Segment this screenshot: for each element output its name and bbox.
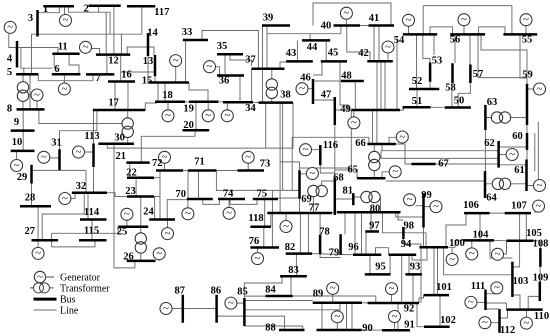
- svg-text:~: ~: [389, 282, 395, 294]
- svg-text:~: ~: [62, 192, 68, 204]
- svg-text:31: 31: [51, 138, 62, 149]
- svg-text:Generator: Generator: [60, 273, 101, 284]
- svg-text:17: 17: [108, 97, 119, 108]
- svg-text:~: ~: [165, 110, 171, 122]
- svg-text:14: 14: [147, 27, 158, 38]
- svg-text:~: ~: [37, 271, 43, 283]
- svg-text:~: ~: [165, 227, 171, 239]
- svg-text:~: ~: [224, 110, 230, 122]
- svg-text:79: 79: [329, 248, 340, 259]
- svg-text:99: 99: [421, 190, 432, 201]
- svg-text:~: ~: [255, 252, 261, 264]
- svg-text:65: 65: [348, 165, 359, 176]
- svg-text:44: 44: [307, 42, 318, 53]
- svg-text:~: ~: [407, 194, 413, 206]
- svg-text:20: 20: [183, 120, 194, 131]
- svg-text:40: 40: [321, 20, 332, 31]
- svg-text:71: 71: [194, 157, 205, 168]
- svg-text:~: ~: [173, 54, 179, 66]
- svg-text:82: 82: [285, 242, 296, 253]
- svg-text:~: ~: [76, 146, 82, 158]
- svg-text:55: 55: [522, 35, 533, 46]
- svg-text:3: 3: [28, 13, 33, 24]
- svg-text:61: 61: [514, 165, 525, 176]
- svg-text:80: 80: [370, 203, 381, 214]
- svg-text:~: ~: [495, 248, 501, 260]
- svg-text:85: 85: [237, 287, 248, 298]
- svg-text:68: 68: [333, 173, 344, 184]
- svg-text:87: 87: [174, 285, 185, 296]
- svg-text:~: ~: [207, 61, 213, 73]
- svg-text:15: 15: [142, 76, 153, 87]
- svg-text:73: 73: [260, 159, 271, 170]
- svg-text:56: 56: [450, 35, 461, 46]
- svg-text:66: 66: [355, 138, 366, 149]
- svg-text:109: 109: [533, 272, 549, 283]
- svg-text:116: 116: [323, 140, 338, 151]
- svg-text:53: 53: [432, 56, 443, 67]
- svg-text:52: 52: [412, 76, 423, 87]
- svg-text:78: 78: [319, 227, 330, 238]
- svg-text:74: 74: [223, 189, 234, 200]
- svg-text:39: 39: [263, 13, 274, 24]
- svg-text:113: 113: [84, 131, 99, 142]
- svg-text:~: ~: [205, 110, 211, 122]
- svg-text:~: ~: [226, 207, 232, 219]
- svg-text:97: 97: [369, 220, 380, 231]
- svg-text:47: 47: [321, 90, 332, 101]
- svg-text:21: 21: [116, 151, 127, 162]
- svg-text:27: 27: [25, 226, 36, 237]
- svg-text:~: ~: [468, 296, 474, 308]
- svg-text:112: 112: [500, 325, 515, 336]
- svg-text:~: ~: [303, 144, 309, 156]
- svg-text:111: 111: [471, 281, 486, 292]
- svg-text:~: ~: [509, 148, 515, 160]
- svg-text:94: 94: [401, 239, 412, 250]
- svg-text:~: ~: [309, 167, 315, 179]
- svg-text:~: ~: [537, 83, 543, 95]
- svg-text:115: 115: [84, 226, 99, 237]
- svg-text:84: 84: [265, 284, 276, 295]
- svg-text:~: ~: [343, 7, 349, 19]
- svg-text:24: 24: [143, 206, 154, 217]
- svg-text:76: 76: [249, 236, 260, 247]
- svg-text:~: ~: [61, 83, 67, 95]
- svg-text:86: 86: [211, 285, 222, 296]
- svg-text:~: ~: [536, 200, 542, 212]
- svg-text:43: 43: [286, 48, 297, 59]
- svg-text:8: 8: [7, 103, 12, 114]
- svg-text:12: 12: [108, 55, 119, 66]
- svg-text:32: 32: [76, 181, 87, 192]
- svg-text:67: 67: [438, 159, 449, 170]
- svg-text:107: 107: [511, 201, 527, 212]
- svg-text:25: 25: [117, 227, 128, 238]
- svg-text:59: 59: [522, 69, 533, 80]
- svg-text:13: 13: [143, 56, 154, 67]
- svg-text:58: 58: [445, 83, 456, 94]
- svg-text:~: ~: [334, 311, 340, 323]
- svg-text:Line: Line: [60, 306, 79, 317]
- svg-text:104: 104: [473, 230, 490, 241]
- svg-text:22: 22: [126, 167, 137, 178]
- svg-text:70: 70: [176, 189, 187, 200]
- svg-text:~: ~: [537, 179, 543, 191]
- svg-text:~: ~: [523, 317, 529, 329]
- svg-text:72: 72: [152, 158, 163, 169]
- svg-text:~: ~: [245, 151, 251, 163]
- svg-text:34: 34: [245, 103, 256, 114]
- svg-text:~: ~: [392, 166, 398, 178]
- svg-text:~: ~: [392, 310, 398, 322]
- svg-text:64: 64: [486, 193, 497, 204]
- svg-text:54: 54: [394, 35, 405, 46]
- svg-text:~: ~: [299, 83, 305, 95]
- svg-text:~: ~: [523, 14, 529, 26]
- svg-text:~: ~: [163, 302, 169, 314]
- svg-text:48: 48: [341, 71, 352, 82]
- svg-text:5: 5: [7, 67, 12, 78]
- svg-text:33: 33: [182, 27, 193, 38]
- svg-text:~: ~: [83, 41, 89, 53]
- svg-text:7: 7: [95, 73, 100, 84]
- svg-text:45: 45: [328, 48, 339, 59]
- svg-text:98: 98: [404, 220, 415, 231]
- svg-text:106: 106: [463, 200, 479, 211]
- svg-text:2: 2: [84, 3, 89, 14]
- svg-text:~: ~: [34, 89, 40, 101]
- svg-text:110: 110: [534, 311, 549, 322]
- svg-text:75: 75: [257, 189, 268, 200]
- svg-text:96: 96: [348, 242, 359, 253]
- svg-text:1: 1: [43, 4, 48, 15]
- svg-text:~: ~: [156, 248, 162, 260]
- svg-text:51: 51: [412, 96, 423, 107]
- svg-text:~: ~: [185, 208, 191, 220]
- svg-text:~: ~: [351, 117, 357, 129]
- svg-text:105: 105: [526, 228, 542, 239]
- svg-text:~: ~: [385, 41, 391, 53]
- svg-text:102: 102: [440, 315, 456, 326]
- svg-text:103: 103: [513, 276, 529, 287]
- svg-text:~: ~: [406, 14, 412, 26]
- svg-text:83: 83: [288, 265, 299, 276]
- svg-text:108: 108: [533, 239, 549, 250]
- svg-text:~: ~: [283, 220, 289, 232]
- svg-text:95: 95: [375, 262, 386, 273]
- svg-text:~: ~: [228, 297, 234, 309]
- svg-text:36: 36: [219, 76, 230, 87]
- svg-text:46: 46: [300, 72, 311, 83]
- svg-text:11: 11: [58, 41, 68, 52]
- svg-text:60: 60: [512, 131, 523, 142]
- svg-text:63: 63: [487, 97, 498, 108]
- svg-text:~: ~: [63, 14, 69, 26]
- svg-text:42: 42: [358, 48, 369, 59]
- svg-text:28: 28: [25, 192, 36, 203]
- svg-text:26: 26: [123, 251, 134, 262]
- svg-text:9: 9: [14, 117, 19, 128]
- svg-text:~: ~: [482, 317, 488, 329]
- svg-text:92: 92: [404, 304, 415, 315]
- svg-text:41: 41: [369, 13, 380, 24]
- svg-text:~: ~: [7, 21, 13, 33]
- svg-text:Bus: Bus: [60, 295, 76, 306]
- svg-text:16: 16: [121, 70, 132, 81]
- svg-text:90: 90: [362, 323, 373, 334]
- svg-text:Transformer: Transformer: [60, 284, 110, 295]
- svg-text:81: 81: [342, 186, 353, 197]
- svg-text:30: 30: [114, 133, 125, 144]
- svg-text:118: 118: [248, 213, 263, 224]
- svg-text:117: 117: [154, 7, 169, 18]
- svg-text:~: ~: [41, 151, 47, 163]
- svg-text:19: 19: [183, 103, 194, 114]
- svg-text:37: 37: [245, 54, 256, 65]
- svg-text:~: ~: [461, 14, 467, 26]
- svg-text:88: 88: [265, 323, 276, 334]
- svg-text:29: 29: [17, 172, 28, 183]
- svg-text:23: 23: [125, 186, 136, 197]
- svg-text:62: 62: [484, 138, 495, 149]
- svg-text:~: ~: [14, 159, 20, 171]
- svg-text:4: 4: [7, 54, 13, 65]
- svg-text:10: 10: [12, 137, 23, 148]
- svg-text:100: 100: [449, 238, 465, 249]
- svg-text:~: ~: [330, 282, 336, 294]
- svg-text:91: 91: [404, 320, 415, 331]
- svg-text:~: ~: [124, 208, 130, 220]
- svg-text:101: 101: [436, 282, 452, 293]
- svg-text:~: ~: [469, 248, 475, 260]
- svg-text:93: 93: [410, 262, 421, 273]
- svg-text:35: 35: [217, 41, 228, 52]
- svg-text:89: 89: [313, 289, 324, 300]
- svg-text:~: ~: [399, 131, 405, 143]
- svg-text:38: 38: [280, 89, 291, 100]
- svg-text:18: 18: [162, 90, 173, 101]
- svg-text:~: ~: [35, 247, 41, 259]
- svg-text:49: 49: [340, 104, 351, 115]
- svg-text:114: 114: [84, 207, 100, 218]
- svg-text:69: 69: [301, 194, 312, 205]
- svg-text:~: ~: [494, 282, 500, 294]
- svg-text:57: 57: [473, 69, 484, 80]
- svg-text:~: ~: [433, 200, 439, 212]
- svg-text:50: 50: [454, 96, 465, 107]
- svg-text:6: 6: [54, 64, 59, 75]
- svg-text:~: ~: [449, 253, 455, 265]
